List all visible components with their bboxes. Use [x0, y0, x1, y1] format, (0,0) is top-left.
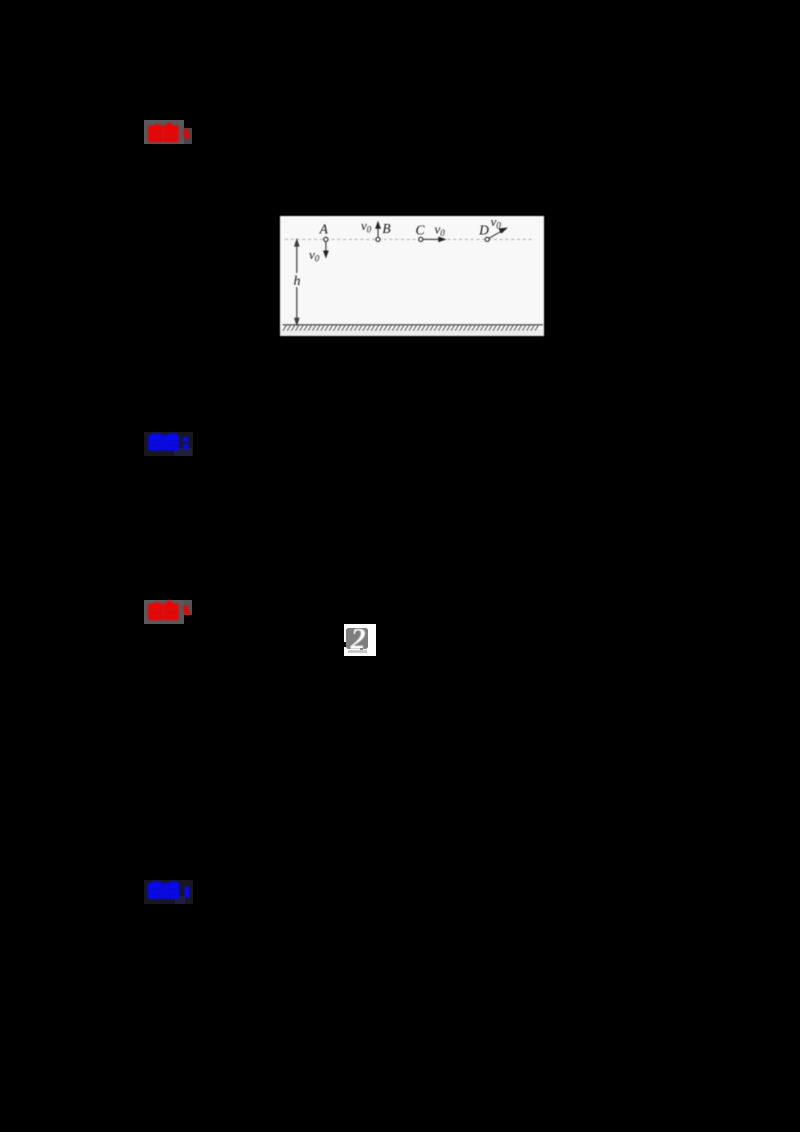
h double arrow — [295, 240, 299, 325]
arrow right from C — [423, 237, 445, 241]
svg-text:h: h — [294, 274, 301, 289]
dashed reference line — [285, 238, 533, 240]
svg-text:A: A — [319, 222, 329, 237]
arrow down from A — [324, 242, 328, 257]
svg-text:B: B — [382, 221, 390, 236]
blue badge 2 (解析 label) — [144, 880, 193, 904]
blue badge 1 (解析 label) — [144, 432, 193, 456]
ground line — [283, 324, 544, 326]
svg-text:C: C — [415, 223, 425, 238]
physics diagram figure — [280, 216, 544, 336]
diagonal arrow from D — [489, 228, 507, 238]
point C — [419, 237, 423, 241]
red badge 2 (例题 label) — [144, 600, 184, 624]
point A — [324, 237, 328, 241]
arrow up from B — [376, 222, 380, 237]
ground hatching — [283, 325, 538, 330]
point B — [376, 237, 380, 241]
point D — [485, 237, 489, 241]
svg-text:D: D — [478, 223, 489, 238]
white figure background — [280, 216, 544, 336]
image placeholder icon "2" — [344, 624, 376, 656]
red badge 1 (例题 label) — [144, 120, 184, 144]
